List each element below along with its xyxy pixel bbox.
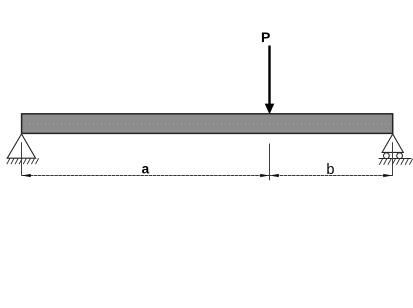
- svg-text:b: b: [326, 162, 334, 178]
- svg-text:P: P: [261, 29, 270, 45]
- svg-text:a: a: [142, 162, 150, 177]
